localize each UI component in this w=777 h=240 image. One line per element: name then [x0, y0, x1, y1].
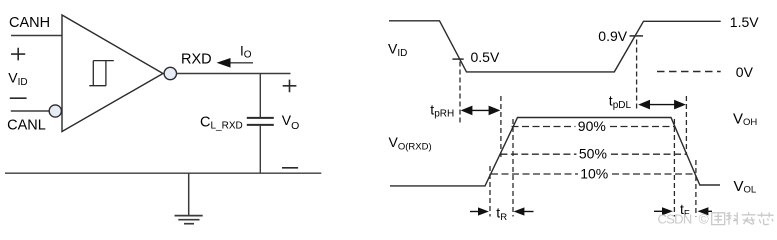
tpDL measurement arrow [645, 104, 680, 106]
wire CANL input [11, 110, 49, 112]
0.5V crossing tick [452, 58, 463, 60]
tpRH measurement arrow [466, 109, 495, 111]
svg-text:CSDN: CSDN [658, 212, 692, 227]
svg-text:50%: 50% [579, 146, 607, 162]
wire capacitor bottom to ground rail [259, 125, 261, 173]
tR right arrow [523, 211, 534, 213]
svg-text:90%: 90% [578, 118, 606, 134]
tF left arrow [654, 210, 664, 212]
waveform VO(RXD) [390, 118, 720, 186]
minus polarity mark for VID [10, 97, 27, 99]
watermark chinese glyphs [712, 212, 774, 225]
90% dashed level line [512, 126, 576, 128]
10% dashed level line [491, 173, 578, 175]
svg-text:0.5V: 0.5V [471, 49, 500, 65]
output inversion bubble [164, 67, 176, 79]
capacitor CL_RXD [247, 117, 274, 119]
svg-text:0V: 0V [736, 64, 754, 80]
inverting input bubble on CANL [49, 105, 61, 117]
dashed vertical at 90% rising output (tR end) [512, 119, 514, 217]
dashed vertical at 90% falling output (tF start) [673, 119, 675, 217]
dashed vertical at 0.9V crossing (tpDL start) [636, 40, 638, 110]
0.9V crossing tick [630, 35, 644, 37]
tR left arrow [470, 211, 481, 213]
svg-text:CANL: CANL [7, 117, 46, 133]
svg-text:10%: 10% [580, 165, 608, 181]
0V dashed level line [657, 71, 721, 73]
ground [188, 173, 190, 215]
waveform VID [389, 21, 721, 72]
wire CANH input [11, 35, 62, 37]
svg-text:0.9V: 0.9V [598, 28, 627, 44]
tF right arrow [706, 210, 712, 212]
current arrow IO [229, 62, 253, 64]
svg-text:©: © [699, 211, 710, 227]
50% dashed level line [500, 153, 576, 155]
plus polarity mark for VO [283, 80, 297, 93]
svg-text:CANH: CANH [9, 15, 50, 31]
dashed vertical at 10% rising output (tR start) [489, 166, 491, 217]
svg-text:1.5V: 1.5V [730, 14, 759, 30]
dashed vertical at 10% falling output (tF end) [695, 160, 697, 217]
comparator U1 triangle [62, 15, 163, 132]
plus polarity mark for VID [11, 48, 25, 61]
dashed vertical at 50% falling output (tpDL end) [685, 96, 687, 155]
svg-text:RXD: RXD [181, 52, 212, 68]
dashed vertical at 0.5V crossing (tpRH start) [459, 62, 461, 124]
wire from RXD node down to capacitor [259, 74, 261, 118]
dashed vertical at 50% rising output (tpRH end) [500, 96, 502, 159]
hysteresis symbol inside comparator [89, 61, 114, 86]
minus polarity mark for VO [282, 167, 298, 169]
wire ground rail [5, 172, 321, 174]
wire RXD output [177, 73, 291, 75]
